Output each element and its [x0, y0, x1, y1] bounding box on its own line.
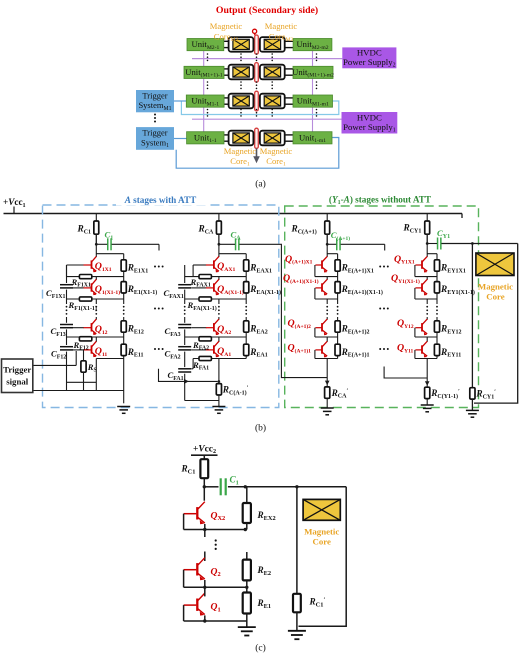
wire collector bus col1: [95, 234, 97, 257]
resistor R_FA1: [199, 356, 211, 360]
magnetic core row 3 right: [260, 94, 285, 109]
wire collector node: [203, 485, 206, 488]
wire bus to R_C(Y1-1)': [426, 359, 428, 388]
unit box row 2 right: [292, 66, 334, 78]
wire Vcc2 bar: [191, 454, 218, 456]
wire HVDC2 supply bus: [192, 58, 342, 60]
HVDC power supply 2 box: [342, 47, 396, 68]
svg-text:Magnetic: Magnetic: [478, 282, 513, 292]
wire R_C(A-1)' to ground: [218, 395, 220, 406]
resistor R_E(A+1)(X1-1): [335, 282, 340, 293]
wire R_E2 stub: [246, 552, 248, 560]
continuation dots vertical: [66, 306, 68, 308]
wire aux bottom link col1: [67, 381, 97, 383]
wire unit chain vertical: [312, 51, 314, 67]
wire link line col3: [327, 253, 337, 255]
continuation dots vertical: [337, 306, 339, 308]
wire emitter node line L4 col2: [193, 358, 246, 360]
wire unit-core stubs row 3 left: [224, 97, 230, 99]
continuation dots: [271, 53, 273, 55]
svg-text:Output (Secondary side): Output (Secondary side): [216, 5, 318, 16]
capacitor C_FA1: [178, 367, 191, 374]
wire C_(A+1) to next stage stub: [341, 243, 385, 245]
magnetic core row 1 left: [229, 37, 254, 52]
wire bus segment col3: [326, 277, 328, 280]
resistor R_EA(X1-1): [244, 282, 249, 293]
wire R_CY1' to ground: [471, 399, 473, 410]
resistor R_FA(X1-1): [199, 297, 211, 301]
transistor Q_1(X1-1): [73, 287, 84, 289]
ground col1: [117, 406, 130, 408]
continuation dots vertical: [436, 306, 438, 308]
wire R_E11 to ground col1: [123, 359, 125, 404]
resistor R_F1X1: [79, 275, 91, 279]
capacitor C_FA3: [178, 323, 191, 330]
continuation dots: [316, 81, 318, 83]
resistor R_C(Y1-1)': [425, 387, 430, 398]
continuation dots: [207, 53, 209, 55]
secondary winding conductor row 2: [255, 63, 259, 83]
transistor Q_11: [73, 349, 84, 351]
continuation dots horizontal: [379, 308, 381, 310]
resistor R_EY1(X1-1): [434, 282, 439, 293]
ground col4: [421, 404, 434, 406]
wire bus segment col4: [426, 299, 428, 304]
wire emitter node line L2 col1: [67, 298, 124, 300]
wire unit-core stubs row 2 right: [284, 68, 294, 70]
wire C_A to stage A+1: [239, 244, 327, 377]
resistor R_E1(X1-1): [121, 282, 126, 293]
wire bus segment col3: [326, 317, 328, 320]
svg-text:Power Supply1: Power Supply1: [343, 122, 396, 134]
wire bus to R_CA': [326, 359, 328, 387]
magnetic core part c: [303, 499, 340, 520]
ground part c right: [288, 630, 306, 632]
unit box row 4 right: [293, 132, 332, 144]
continuation dots: [207, 81, 209, 83]
continuation dots horizontal: [154, 308, 156, 310]
transistor Q_Y1(X1-1): [415, 287, 421, 289]
HVDC power supply 1 box: [342, 112, 398, 134]
wire unit chain vertical: [203, 79, 205, 96]
wire emitter node line L1 col1: [67, 276, 124, 278]
resistor R_EA2: [244, 321, 249, 332]
wire emitter to bus col1: [95, 359, 97, 391]
wire emitter node line L3 col4: [415, 336, 437, 338]
transistor Q_Y11: [415, 349, 421, 351]
svg-text:A stages with ATT: A stages with ATT: [124, 195, 197, 205]
wire emitter node line L3 col3: [315, 336, 338, 338]
wire incoming from C_(Y1-1) stub: [384, 367, 427, 379]
resistor R_C(A+1): [326, 214, 328, 222]
unit box row 3 left: [186, 95, 224, 107]
wire unit chain vertical: [312, 107, 314, 132]
continuation dots vertical: [426, 306, 428, 308]
wire bus segment col4: [426, 337, 428, 342]
continuation dots vertical: [123, 306, 125, 308]
resistor R_CY1: [426, 214, 428, 222]
secondary winding conductor row 4: [255, 128, 259, 148]
transistor Q_(A+1)1: [315, 349, 321, 351]
wire link line col1: [96, 253, 123, 255]
wire emitter node line L3 col1: [67, 336, 124, 338]
wire base corner col1: [66, 265, 68, 277]
svg-text:Trigger: Trigger: [142, 128, 167, 138]
wire core loop left: [471, 244, 473, 388]
wire emitter node line Q2: [184, 586, 247, 588]
svg-text:Magnetic: Magnetic: [304, 527, 339, 537]
transistor Q_A(X1-1): [191, 287, 206, 289]
wire emitter node line L3 col2: [185, 336, 247, 338]
wire trigger top: [33, 364, 76, 366]
resistor R_E1X1: [121, 260, 126, 271]
transistor Q_X2: [196, 507, 198, 519]
ground part c left: [238, 626, 256, 628]
resistor R_FA2: [199, 337, 211, 341]
wire collector stub Q2: [204, 552, 206, 562]
wire R_E column col2: [245, 254, 247, 304]
resistor R_S: [83, 350, 85, 361]
resistor R_EAX1: [244, 260, 249, 271]
continuation dots horizontal: [379, 348, 381, 350]
resistor R_CY1': [470, 388, 475, 399]
wire emitter node line Q1: [184, 620, 247, 622]
wire bus segment col2: [218, 317, 220, 320]
wire bus segment col4: [426, 277, 428, 280]
continuation dots vertical: [218, 306, 220, 308]
svg-text:Magnetic: Magnetic: [265, 21, 298, 31]
wire junction dot: [218, 380, 221, 383]
svg-text:Magnetic: Magnetic: [224, 146, 257, 156]
resistor R_CA: [218, 214, 220, 222]
continuation dots horizontal: [154, 266, 156, 268]
continuation dots horizontal: [379, 266, 381, 268]
wire C_(A+1) node: [327, 243, 336, 245]
resistor R_EY11: [434, 344, 439, 355]
wire unit chain vertical: [312, 79, 314, 96]
ground col3: [321, 407, 334, 409]
wire C1 to core loop: [228, 486, 346, 488]
wire emitter node line L2 col4: [415, 298, 437, 300]
svg-text:Trigger: Trigger: [3, 365, 31, 375]
transistor Q_2: [196, 563, 198, 575]
svg-text:Trigger: Trigger: [142, 90, 167, 100]
wire emitter node line L2 col2: [185, 298, 247, 300]
magnetic core row 2 right: [260, 65, 285, 80]
resistor R_C(A-1)': [216, 384, 221, 395]
wire trigger bottom bus: [33, 390, 124, 392]
wire unit-core stubs row 1 left: [223, 40, 229, 42]
resistor R_EY12: [434, 321, 439, 332]
magnetic core row 4 left: [229, 131, 254, 146]
ground col2: [212, 406, 225, 408]
wire C1 node: [96, 243, 107, 245]
wire bus segment col3: [326, 337, 328, 342]
wire unit chain vertical: [203, 51, 205, 67]
continuation dots horizontal: [154, 348, 156, 350]
resistor R_E(A+1)1: [335, 344, 340, 355]
wire emitter node line QX2: [184, 529, 247, 531]
resistor R_E2: [243, 560, 251, 581]
wire bus segment col1: [95, 277, 97, 280]
wire unit-core stubs row 3 right: [284, 97, 294, 99]
secondary winding conductor row 1: [255, 35, 259, 54]
transistor Q_AX1: [193, 264, 206, 266]
wire C1 to next stage stub: [112, 243, 159, 245]
wire core loop right part c: [299, 487, 347, 626]
magnetic core row 4 right: [260, 131, 285, 146]
wire R_CA' to ground: [326, 398, 328, 408]
wire Vcc1 rail: [4, 213, 463, 215]
wire emitter node line L4 col3: [315, 358, 338, 360]
wire bus segment col3: [326, 299, 328, 304]
wire bus segment col4: [426, 317, 428, 320]
wire R_E column col3: [337, 254, 339, 304]
resistor R_EA1: [244, 344, 249, 355]
wire collector bus col3: [326, 234, 328, 257]
unit box row 1 left: [187, 39, 224, 51]
continuation dots: [207, 109, 209, 111]
wire bottom return loop: [176, 138, 339, 169]
resistor R_EX2: [246, 487, 248, 503]
ground core loop: [466, 409, 479, 411]
svg-text:Core: Core: [486, 292, 504, 302]
resistor R_F1(X1-1): [79, 297, 91, 301]
unit box row 3 right: [293, 95, 333, 107]
wire R_C(Y1-1)' to ground: [426, 399, 428, 405]
wire arrow into R_CA': [325, 381, 330, 386]
capacitor C_(A+1): [336, 238, 338, 250]
wire unit-core stubs row 4 left: [224, 134, 230, 136]
svg-text:(Y1-A) stages without ATT: (Y1-A) stages without ATT: [329, 195, 431, 207]
dashed box A stages with ATT: [43, 205, 279, 408]
wire collector bus col4: [426, 234, 428, 257]
continuation dots: [240, 81, 242, 83]
wire C_Y1 to magnetic core loop: [441, 243, 517, 245]
transistor Q_Y1X1: [415, 264, 421, 266]
wire emitter node line L1 col2: [185, 276, 247, 278]
continuation dots vertical: [245, 306, 247, 308]
continuation dots part c: [215, 539, 217, 541]
capacitor C_F12: [60, 345, 73, 352]
wire core loop right: [474, 244, 518, 404]
capacitor C1: [107, 238, 109, 250]
wire link line col2: [219, 253, 246, 255]
wire bus segment col2: [218, 299, 220, 304]
resistor R_E1: [246, 587, 248, 592]
resistor R_C1: [95, 214, 97, 222]
magnetic core part b: [476, 253, 514, 276]
svg-text:Magnetic: Magnetic: [210, 21, 243, 31]
resistor R_C1': [293, 594, 301, 613]
continuation dots: [271, 109, 273, 111]
resistor R_E(A+1)X1: [335, 260, 340, 271]
wire Vcc1 stub: [13, 207, 15, 214]
svg-text:(c): (c): [255, 642, 266, 653]
wire trigger system M1 to unit: [174, 100, 186, 102]
capacitor C1 part c: [220, 478, 222, 495]
transistor Q_A2: [191, 327, 206, 329]
dashed box stages without ATT: [285, 206, 479, 408]
wire incoming from C_(A-1) stub: [159, 369, 218, 382]
transistor Q_12: [73, 327, 84, 329]
wire bus to R_C(A-1)': [218, 359, 220, 384]
wire capacitor chain col1: [66, 265, 68, 304]
wire cap chain bottom col2: [185, 400, 219, 402]
capacitor C_FA2: [178, 345, 191, 352]
wire capacitor chain col2: [184, 265, 186, 304]
trigger system 1 box: [136, 127, 174, 150]
wire C_A node: [219, 243, 235, 245]
unit box row 2 left: [184, 66, 224, 78]
wire core loop left part c: [296, 487, 298, 594]
wire emitter node line L4 col1: [96, 358, 123, 360]
svg-text:(b): (b): [255, 423, 266, 434]
wire bus segment col1: [95, 317, 97, 320]
wire emitter node line L1 col4: [415, 276, 437, 278]
wire bus segment col2: [218, 277, 220, 280]
wire stub below QX2 node: [204, 530, 206, 538]
wire bus segment col2: [218, 337, 220, 342]
svg-text:(a): (a): [255, 178, 266, 189]
resistor R_CA': [325, 387, 330, 398]
svg-text:Power Supply2: Power Supply2: [343, 57, 396, 69]
transistor Q_1: [196, 599, 198, 611]
capacitor C_A: [235, 238, 237, 250]
wire link line col4: [427, 253, 437, 255]
capacitor C_FAX1: [178, 283, 191, 290]
secondary output arrow: [256, 148, 258, 156]
resistor R_C1 part c: [203, 455, 205, 459]
wire unit chain vertical: [203, 107, 205, 132]
wire trigger system 1 to unit: [174, 138, 187, 140]
label (Y1-A) stages without ATT: [325, 194, 437, 206]
svg-text:System1: System1: [141, 137, 169, 149]
resistor R_F12: [79, 337, 91, 341]
resistor R_E11: [121, 344, 126, 355]
capacitor C_F1X1: [60, 283, 73, 290]
wire output stem: [254, 34, 256, 36]
svg-text:Core: Core: [312, 537, 330, 547]
svg-text:+Vcc2: +Vcc2: [193, 444, 216, 455]
wire trigger distribution line: [181, 101, 338, 115]
unit box row 1 right: [293, 39, 332, 51]
wire emitter node line L2 col3: [315, 298, 338, 300]
unit box row 4 left: [187, 132, 224, 144]
capacitor C_F13: [60, 323, 73, 330]
continuation dots: [256, 53, 258, 55]
wire unit-core stubs row 4 right: [284, 134, 294, 136]
wire R_E column col4: [436, 254, 438, 304]
wire C_Y1 node: [427, 243, 437, 245]
continuation dots vertical: [326, 306, 328, 308]
wire collector bus col2: [218, 234, 220, 257]
transistor Q_Y12: [415, 327, 421, 329]
transistor Q_A1: [191, 349, 206, 351]
wire HVDC1 supply bus: [192, 118, 342, 120]
svg-text:signal: signal: [6, 377, 29, 387]
magnetic core row 2 left: [229, 65, 254, 80]
continuation dots: [240, 109, 242, 111]
continuation dots: [256, 109, 258, 111]
svg-text:Magnetic: Magnetic: [260, 146, 293, 156]
continuation dots: [316, 53, 318, 55]
label A stages with ATT: [116, 194, 206, 206]
wire to ground left: [246, 621, 248, 627]
continuation dots: [256, 81, 258, 83]
capacitor C_Y1: [437, 238, 439, 250]
resistor R_FAX1: [199, 275, 211, 279]
continuation dots trigger systems: [154, 114, 156, 116]
wire bus segment col1: [95, 299, 97, 304]
transistor Q_(A+1)(X1-1): [315, 287, 321, 289]
wire bus segment col1: [95, 337, 97, 342]
trigger system M1 box: [136, 90, 174, 112]
resistor R_E(A+1)2: [335, 321, 340, 332]
transistor Q_(A+1)2: [315, 327, 321, 329]
continuation dots: [240, 53, 242, 55]
magnetic core row 1 right: [260, 37, 285, 52]
wire emitter node line L1 col3: [315, 276, 338, 278]
wire base corner col2: [192, 265, 194, 277]
trigger signal box: [2, 359, 33, 393]
resistor R_EY1X1: [434, 260, 439, 271]
wire R_E column col1: [123, 254, 125, 304]
continuation dots: [316, 109, 318, 111]
continuation dots vertical: [95, 306, 97, 308]
output terminal node: [253, 29, 257, 33]
resistor R_E12: [121, 321, 126, 332]
continuation dots vertical: [184, 306, 186, 308]
transistor Q_(A+1)X1: [315, 264, 321, 266]
wire emitter node line L4 col4: [415, 358, 437, 360]
magnetic core row 3 left: [229, 94, 254, 109]
secondary winding conductor row 3: [255, 91, 259, 111]
wire unit-core stubs row 2 left: [224, 68, 230, 70]
transistor Q_1X1: [67, 264, 85, 266]
wire unit-core stubs row 1 right: [284, 40, 294, 42]
continuation dots: [271, 81, 273, 83]
